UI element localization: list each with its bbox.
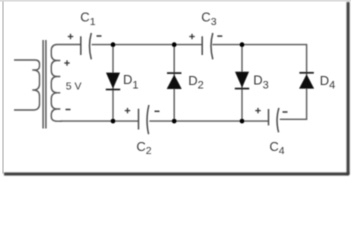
wire top rail C3 to top-right corner, then right vertical down through D4 to bottom-right corner, then left to C4 [212, 45, 306, 120]
frame top edge [0, 0, 351, 2]
polarity - for C3 [217, 35, 222, 37]
frame left edge [2, 1, 4, 174]
junction node D1 top [111, 42, 116, 47]
polarity - secondary [66, 109, 71, 111]
frame right edge [347, 2, 350, 175]
junction node D3 top [240, 42, 245, 47]
polarity + for C2 [125, 108, 130, 113]
polarity - for C1 [97, 35, 102, 37]
diode D2 [167, 73, 182, 89]
svg-text:C1: C1 [80, 10, 95, 28]
polarity + for C4 [255, 108, 260, 113]
capacitor C3 [202, 33, 213, 59]
polarity + for C3 [189, 34, 194, 39]
capacitor C4 [269, 108, 279, 132]
junction node D2 bottom [172, 119, 177, 124]
polarity + secondary [64, 60, 69, 65]
diode D1 [106, 73, 120, 90]
junction node D1 bottom [111, 119, 116, 124]
wire branch D2 [173, 45, 175, 122]
svg-text:C3: C3 [201, 10, 216, 28]
wire top rail C1 to C3 [92, 44, 202, 46]
svg-text:D4: D4 [320, 73, 336, 91]
junction node D3 bottom [240, 119, 245, 124]
svg-text:D2: D2 [188, 73, 204, 91]
capacitor C1 [81, 33, 92, 59]
junction node D2 top [172, 42, 177, 47]
svg-text:D1: D1 [123, 72, 139, 91]
polarity - for C2 [155, 110, 160, 112]
wire branch D3 [241, 45, 243, 122]
transformer T1 secondary winding [51, 45, 80, 122]
polarity + for C1 [68, 34, 73, 39]
diode D3 [235, 72, 249, 89]
wire branch D1 [112, 45, 114, 122]
frame bottom edge [4, 173, 349, 176]
capacitor C2 [139, 105, 149, 134]
transformer core line 1 [42, 40, 44, 129]
transformer core line 2 [45, 40, 47, 129]
wire bottom rail from transformer to C2 [60, 120, 138, 122]
transformer T1 primary winding [14, 60, 40, 110]
svg-text:5 V: 5 V [66, 81, 82, 93]
diode D4 [299, 73, 314, 89]
wire bottom rail C2 to C4 [149, 120, 268, 122]
svg-text:C2: C2 [136, 139, 151, 157]
svg-text:D3: D3 [253, 73, 269, 92]
polarity - for C4 [283, 111, 288, 113]
svg-text:C4: C4 [269, 139, 284, 157]
